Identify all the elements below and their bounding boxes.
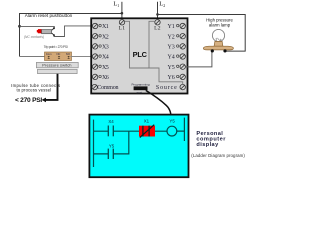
svg-text:Source: Source [156,85,177,91]
ladder left rail [93,120,95,167]
terminal X4 [92,54,97,59]
svg-text:2: 2 [163,4,165,8]
svg-text:< 270 PSI: < 270 PSI [15,97,42,104]
arrowhead to process vessel [42,98,46,103]
programming port [131,82,149,94]
rung 1 wire [94,130,185,132]
branch wire [94,131,129,154]
svg-text:Alarm reset pushbutton: Alarm reset pushbutton [25,13,73,18]
pushbutton PB1 (alarm reset, NC) [37,27,55,36]
svg-text:port: port [137,91,142,95]
contact Y5 (seal-in) [108,149,113,159]
svg-text:Y3: Y3 [168,45,175,51]
svg-text:Y1: Y1 [168,24,175,30]
terminal X3 [92,44,97,49]
svg-text:1: 1 [117,4,119,8]
wire PLC internal L2 bus [149,21,155,68]
pressure switch PS1 terminal block [45,52,72,61]
screw terminals [47,56,70,59]
terminal X5 [92,64,97,69]
svg-text:X6: X6 [102,75,109,81]
svg-text:L1: L1 [119,25,126,31]
svg-text:Y6: Y6 [168,75,175,81]
label personal computer display [196,131,226,148]
contact X1 (NC, highlighted) [139,125,155,138]
wire bottom to pressure switch Com [20,56,45,58]
personal computer display [89,115,188,178]
svg-text:Com: Com [46,52,52,56]
terminal X6 [92,74,97,79]
pressure switch base plate [38,69,78,73]
svg-text:X4: X4 [108,119,114,124]
coil Y5 [167,126,177,136]
svg-text:Programming: Programming [131,82,149,86]
svg-text:PLC: PLC [133,50,148,59]
svg-text:Y2: Y2 [168,34,175,40]
wire top-left loop (L1 rail to pushbutton circuit) [20,14,122,57]
svg-text:X3: X3 [102,45,109,51]
svg-text:Y5: Y5 [169,119,175,124]
svg-text:Common: Common [97,85,118,91]
svg-text:X2: X2 [102,34,109,40]
svg-text:(NC contacts): (NC contacts) [24,35,44,39]
svg-text:Trip point = 270 PSI: Trip point = 270 PSI [44,45,68,49]
wire pressure switch NO to X4 [71,56,93,58]
svg-text:X5: X5 [102,65,109,71]
lamp terminal right [223,49,226,52]
wire rail to pushbutton top lead [20,26,55,28]
terminal Common [92,84,97,89]
lamp filament [216,38,222,41]
wire L2 to lamp (right loop) [158,15,246,52]
wire Y5 to lamp [186,51,212,67]
svg-text:Y4: Y4 [168,55,175,61]
lamp terminal left [211,49,214,52]
svg-text:NO: NO [66,52,70,56]
node L2 power line [156,1,165,20]
Y output terminals Y1-Y6 [156,23,185,91]
node junction on left rail [18,25,21,28]
wire PLC internal L1 bus [125,21,183,84]
svg-text:alarm lamp: alarm lamp [209,22,231,27]
X input terminals X1-X6 [92,23,119,91]
ladder right rail [183,118,185,141]
pressure switch body [36,62,78,67]
svg-text:Y5: Y5 [168,65,175,71]
svg-text:X1: X1 [102,24,109,30]
programming cable [146,90,171,119]
PLC U1 enclosure [91,18,187,93]
contact X4 [108,126,113,137]
node L1 power line [113,1,123,20]
svg-text:L2: L2 [154,25,161,31]
terminal L2 [155,20,160,25]
svg-text:Y5: Y5 [109,143,115,148]
svg-text:X4: X4 [102,55,109,61]
impulse tube [45,74,57,100]
svg-text:NC: NC [56,52,60,56]
terminal L1 [119,20,124,25]
svg-text:display: display [196,142,219,148]
lamp socket neck [214,41,223,46]
svg-text:(Ladder Diagram program): (Ladder Diagram program) [191,153,245,158]
terminal X2 [92,34,97,39]
lamp DS1 bulb [212,29,224,41]
svg-text:to process vessel: to process vessel [16,87,51,92]
terminal X1 [92,23,97,28]
lamp base flange [203,46,233,50]
svg-text:Pressure switch: Pressure switch [42,63,71,68]
svg-text:X1: X1 [144,118,150,123]
wire pushbutton to X1 [54,26,92,37]
